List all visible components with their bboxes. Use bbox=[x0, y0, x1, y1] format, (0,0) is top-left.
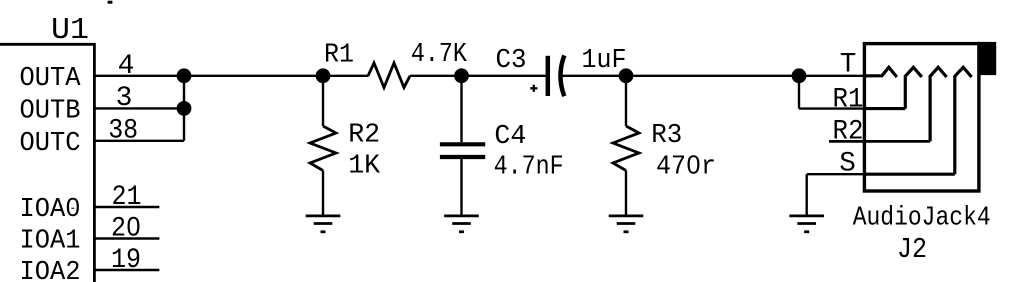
svg-text:1K: 1K bbox=[348, 152, 381, 182]
junction node at R1/R2 bbox=[316, 68, 331, 83]
svg-text:470r: 470r bbox=[656, 153, 716, 183]
wire down to C4 bbox=[460, 76, 462, 143]
connector J2 sleeve block bbox=[978, 42, 997, 75]
svg-text:21: 21 bbox=[112, 182, 142, 213]
pin OUTC lead and wire bbox=[94, 140, 184, 142]
svg-text:OUTA: OUTA bbox=[20, 64, 82, 94]
svg-text:IOA0: IOA0 bbox=[20, 195, 81, 225]
svg-text:R2: R2 bbox=[833, 117, 864, 148]
svg-text:T: T bbox=[840, 50, 857, 81]
wire vertical joining OUTA OUTB OUTC bbox=[183, 76, 185, 141]
svg-text:C3: C3 bbox=[496, 46, 527, 76]
junction node at OUTA bbox=[177, 68, 192, 83]
svg-text:IOA2: IOA2 bbox=[20, 258, 81, 282]
wire sleeve to ground bbox=[806, 174, 808, 216]
pin OUTB lead and wire bbox=[94, 107, 184, 109]
ground symbol below R2 bbox=[306, 216, 341, 232]
wire C3 to jack bbox=[561, 75, 864, 77]
ground symbol below jack bbox=[789, 216, 824, 232]
ring2 contact riser and chevron bbox=[930, 67, 947, 141]
svg-text:1uF: 1uF bbox=[582, 46, 627, 76]
capacitor C3 right curved plate bbox=[560, 55, 564, 96]
capacitor C3 plus sign bbox=[530, 85, 537, 92]
svg-text:R2: R2 bbox=[348, 121, 380, 151]
svg-text:4.7K: 4.7K bbox=[411, 40, 468, 70]
svg-text:4: 4 bbox=[118, 51, 135, 82]
resistor R2 body bbox=[310, 126, 336, 171]
svg-text:C4: C4 bbox=[494, 122, 526, 152]
svg-text:R1: R1 bbox=[324, 40, 354, 70]
pin IOA2 lead bbox=[94, 269, 159, 271]
ground symbol below C4 bbox=[444, 216, 479, 232]
junction node at OUTB bbox=[177, 101, 192, 116]
wire C4 to ground bbox=[460, 157, 462, 216]
wire down to R3 bbox=[625, 76, 627, 126]
pin R2 lead bbox=[829, 140, 930, 143]
resistor R3 body bbox=[613, 126, 639, 171]
connector J2 box bbox=[864, 44, 979, 191]
junction node at jack tip bbox=[792, 68, 807, 83]
capacitor C4 body bbox=[440, 144, 485, 157]
stray dash mark bbox=[108, 1, 113, 4]
wire R3 to ground bbox=[625, 171, 627, 216]
resistor R1 body bbox=[368, 63, 410, 88]
svg-text:J2: J2 bbox=[897, 233, 927, 266]
svg-text:U1: U1 bbox=[51, 13, 89, 48]
wire ring1 row bbox=[799, 107, 864, 109]
wire tip to ring1 bbox=[798, 76, 800, 109]
svg-text:R1: R1 bbox=[833, 84, 864, 115]
junction node at R3 bbox=[619, 68, 634, 83]
ground symbol below R3 bbox=[609, 216, 644, 232]
svg-text:20: 20 bbox=[111, 214, 141, 245]
wire main net OUTA to R1 bbox=[94, 75, 368, 77]
svg-text:IOA1: IOA1 bbox=[20, 227, 81, 257]
svg-text:AudioJack4: AudioJack4 bbox=[853, 204, 991, 234]
sleeve contact riser and chevron bbox=[955, 67, 972, 174]
svg-text:R3: R3 bbox=[651, 121, 682, 151]
svg-text:4.7nF: 4.7nF bbox=[494, 153, 564, 183]
junction node at C4 bbox=[454, 68, 469, 83]
wire R2 to ground bbox=[322, 171, 324, 216]
wire R1 to C3 bbox=[410, 75, 547, 77]
svg-text:OUTC: OUTC bbox=[20, 129, 81, 159]
ring1 contact riser and chevron bbox=[905, 67, 922, 108]
pin IOA1 lead bbox=[94, 237, 159, 239]
op-amp U1 bbox=[0, 44, 94, 282]
pin IOA0 lead bbox=[94, 206, 159, 208]
svg-text:19: 19 bbox=[111, 245, 141, 276]
tip contact chevron bbox=[864, 67, 896, 77]
wire down to R2 bbox=[322, 76, 324, 126]
svg-text:OUTB: OUTB bbox=[20, 96, 81, 126]
wire sleeve row bbox=[807, 173, 865, 175]
capacitor C3 left plate bbox=[546, 56, 551, 96]
